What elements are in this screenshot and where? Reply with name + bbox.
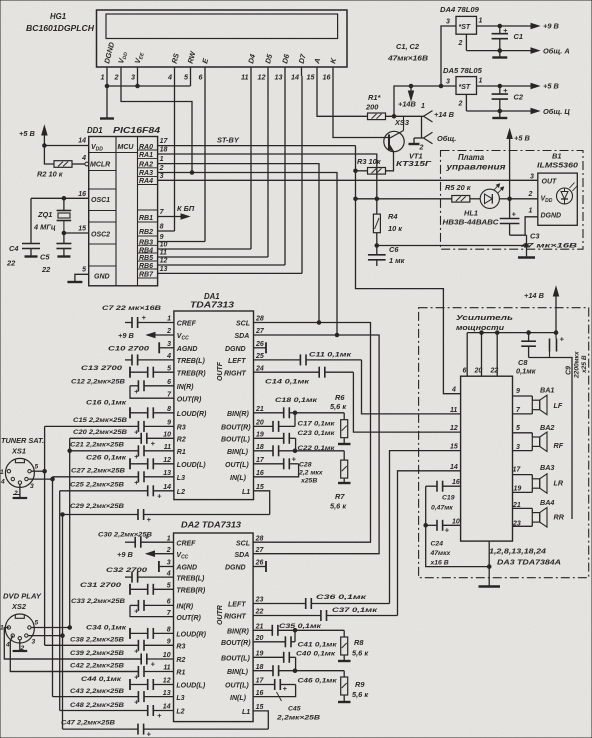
wire B1 DGND [510,217,538,235]
capacitor C16 [130,407,174,418]
pin number 4 [81,155,86,162]
capacitor C41 [253,636,295,647]
DA1 pin 17 name [225,462,249,469]
wire C23 to C22 row [295,438,297,451]
label 4MHz [33,223,56,232]
capacitor C17 [254,421,296,432]
wire XS2 pin3 [28,635,63,637]
ground XS2 [13,640,28,651]
capacitor C42 [10,666,173,682]
wire RA1 to R4 node [158,154,377,199]
wire AGND stub DA1 [159,347,174,349]
pin number DA4-2 [458,40,463,47]
wire C45 loop to IN(L) [253,685,296,697]
XS1 pin number 3 [30,483,34,490]
label C38 [70,636,124,643]
wire C40 to C46 row [295,657,297,670]
LCD pin 4 stub [174,67,176,76]
label RF [554,441,564,450]
wire RB7 row [158,272,302,274]
DA2 pin 17 number [256,678,265,685]
capacitor C19 [426,481,461,492]
label C35 [279,623,322,630]
DA2 pin 18 number [256,664,264,671]
label R9 [355,680,365,689]
junction XS2-5 harness [68,626,72,630]
capacitor C22 [254,445,345,456]
LCD pin 6 number [199,73,204,82]
digital ground tick DA2 [265,561,267,572]
MCU cell separators right [138,150,158,278]
label C19 value [431,505,453,512]
wire LCD DGND down [106,76,108,118]
DA2 pin 19 name [221,656,250,663]
label DA1 [204,292,220,301]
XS2 pin number 2 [20,645,25,652]
wire AGND stub DA2 [159,566,174,568]
pin name RB5 [139,255,153,262]
label R9 value [352,690,369,699]
wire LCD D6 to RB6 [284,76,286,265]
pin number DA3-6 [463,368,467,375]
capacitor C12 [130,380,174,396]
DA2 pin 6 number [167,599,171,606]
DA1 pin 17 number [256,457,265,464]
XS1 pin number 5 [35,464,39,471]
wire harness H5 [69,438,71,627]
DA1 pin 10 name [177,437,186,444]
DA2 pin 15 name [242,709,250,716]
wire LCD D5 to RB5 [267,76,269,257]
junction SDA [335,333,339,337]
junction gnd 245 [525,244,529,248]
label C44 [81,676,122,683]
junction C1 bottom [498,49,502,53]
junction rail C8 [527,331,531,335]
DA2 pin 4 number [166,570,171,577]
wire harness H4 [62,515,64,730]
wire LCD E to RB3 [204,76,206,242]
junction C18 R6 [293,411,297,415]
ground tick C34 [129,628,131,639]
DA1 pin 6 number [167,379,171,386]
pin number 10 [160,242,168,249]
DA1 pin 20 number [255,420,264,427]
capacitor C7 [125,313,174,328]
IR receiver photodiode symbol [557,183,578,205]
capacitor C30 [125,533,174,548]
digital ground tick DA1 [265,342,267,353]
wire R9 leads [343,671,345,702]
voltage regulator DA5 [456,77,477,95]
wire C3 to ground [510,234,527,236]
wire DA1 RIGHT to DA3-12 [353,372,460,432]
DA2 pin 26 number [255,560,264,567]
junction SCL [317,321,321,325]
label +14V [398,100,417,109]
DA2 pin 22 number [255,609,264,616]
supply arrow +14V amp [553,287,558,333]
label C13 [81,365,122,372]
XS2 pin number 3 [32,639,36,646]
wire +5V down to R2 [44,146,54,165]
LCD pin 12 stub [267,67,269,76]
LCD pin 11 stub [250,67,252,76]
DA2 pin 16 name [230,695,247,702]
pin name RA3 [139,170,153,177]
LCD pin 16 stub [332,67,334,76]
wire LCD VEE to rail [137,76,139,86]
wire crystal top [63,198,65,210]
DA2 pin 8 number [167,627,171,634]
DA2 pin 17 name [225,683,249,690]
DA2 pin 28 number [255,535,264,542]
wire HL1 to C3 node [499,198,509,200]
label C5 value [41,265,51,274]
LCD pin 14 number [291,73,299,82]
wire R3 left [356,170,368,172]
capacitor C6 [368,246,386,267]
XS1 pin number 4 [0,479,5,486]
resistor R4 [373,199,380,246]
label C21 [70,441,124,448]
junction R4 top [375,197,379,201]
wire XS1 pin5 [31,470,44,472]
wire DA1 SDA row and drop to DA2 [253,335,379,554]
DA2 pin 19 number [256,651,264,658]
supply arrow +9V DA1 [118,331,174,340]
wire DA1 SCL row and drop to DA2 [253,323,370,543]
DA1 pin 16 number [256,470,264,477]
transistor VT1 [384,116,404,152]
pin name RA4 [139,178,153,185]
pin name OSC1 [91,197,110,204]
label C43 [70,688,124,695]
connector XS1 [5,458,34,487]
DA2 pin 1 number [167,535,171,542]
wire R3 to VT1 emitter [386,152,394,171]
DA1 pin 2 name [177,333,189,342]
DA1 pin 5 name [177,370,206,377]
pin number 15 [78,225,86,232]
resistor R8 [341,637,348,655]
DA2 pin 23 number [255,597,264,604]
capacitor C29 [63,509,270,524]
label C12 [71,378,125,385]
wire RB6 row [158,264,285,266]
DA1 pin 18 number [256,444,264,451]
pin number B1-3 [530,174,534,181]
wire DA1 L1 loop [254,491,270,515]
speaker BA2 [513,432,548,451]
label +14V amp [524,291,545,300]
wire OUT(R) loop DA2 [130,605,174,616]
wire DA4 common [466,34,539,53]
label R8 value [352,648,369,657]
MCU cell separators left [89,153,116,267]
label C28 b [298,469,324,476]
pin name OUT [542,178,558,185]
DA1 pin 3 name [176,346,198,353]
wire harness H1 [44,426,46,645]
wire LCD VDD to RA3 [121,76,192,173]
capacitor C36 [253,598,389,609]
pin name DGND B1 [541,213,562,220]
label HG1 [50,12,66,21]
junction ST-BY R3 [354,169,358,173]
label C41 [298,641,338,648]
power amp rail [467,332,556,334]
capacitor C32 [125,572,174,583]
label C1 C2 values 2 [387,54,429,63]
ground tick C16 [129,407,131,418]
DA1 pin 28 name [236,321,250,328]
DA2 pin 23 name [228,602,246,609]
DA3 top pin 20 [481,333,483,377]
DA1 pin 5 number [167,365,171,372]
DA2 pin 10 name [176,657,185,664]
wire C19 C24 left rail [426,486,490,566]
DA2 pin 18 name [227,669,249,676]
pin name RA0 [139,144,153,151]
DA1 pin 4 name [177,358,206,365]
ground DA3 [479,585,501,588]
LCD pin 5 number [184,73,189,82]
capacitor C20 [70,433,174,448]
DA2 pin 12 number [163,678,171,685]
label C9 rotated [566,351,589,379]
pin number 8 [160,224,164,231]
wire RB5 row [158,256,268,258]
pin number DA3-3 [516,444,520,451]
DA2 pin 10 number [163,652,171,659]
junction XS2-3 harness [61,634,65,638]
label control board 2 [445,163,506,172]
ground C5 [57,256,70,257]
capacitor C9 [550,333,565,358]
DA1 pin 27 number [255,328,265,335]
ground tick C26 [129,458,131,469]
label C7 [102,305,161,312]
pin name RB1 [139,215,153,222]
wire LCD ground rail [107,85,191,87]
wire RB3 row [158,241,205,243]
label C19 [442,495,455,502]
label XS1 [11,447,26,456]
DA1 pin 18 name [227,449,249,456]
junction rail pin20 [480,331,484,335]
label B1 [552,152,561,161]
pin number DA3-11 [450,407,457,414]
ground R8 [338,660,351,662]
label VT1 [409,152,423,161]
pin number 18 [160,147,168,154]
ground control board [518,235,535,257]
signal arrow K BP [158,214,189,219]
LCD pin 13 number [275,73,283,82]
junction C46 R9 [293,669,297,673]
DA2 pin 11 name [176,670,185,677]
XS1 pin number 1 [0,469,4,476]
label RR [554,513,565,522]
DA1 pin 8 number [167,406,171,413]
label C46 [298,677,338,684]
label ILMS5360 [537,161,579,170]
resistor R5 [452,196,470,203]
label C45 a [288,706,301,713]
pin name GND [94,274,110,281]
capacitor C48 [60,705,174,720]
DA2 pin 1 name [176,540,196,547]
label TDA7313 [190,301,235,310]
pin number DA3-22 [490,368,499,375]
wire DA5 output [477,83,540,88]
capacitor C1 [492,26,508,51]
DA1 pin 4 number [166,353,171,360]
capacitor C13 [130,367,174,378]
LCD pin 15 number [307,73,316,82]
label C28 c [300,477,317,484]
amplifier DA3 box [461,376,513,541]
label C23 [298,430,336,437]
pin number 3 [160,173,164,180]
wire DGND stub DA2 [253,566,266,568]
label BA3 [540,463,554,472]
DA3 top pin 22 [496,333,498,377]
DA2 pin 13 number [163,690,171,697]
junction C21 harness [68,449,72,453]
ground tick C13 [129,367,131,378]
DA1 pin 7 number [167,391,172,398]
label C24 value a [430,550,452,557]
junction +14V arrow [409,84,413,88]
power amp border [419,308,589,578]
label XS3 common [437,134,456,143]
label +5V control [514,134,530,143]
DA2 pin 6 name [176,604,193,611]
pin number DA3-15 [450,444,458,451]
wire R8 leads [343,630,345,660]
LCD pin 6 name E [200,56,210,64]
DA2 pin 3 number [167,560,171,567]
junction DGND rail [105,84,109,88]
wire C28 loop to IN(L) [254,464,299,477]
wire RA0 ST-BY [158,145,356,147]
label XS3 [394,118,410,127]
pin number DA3-12 [450,425,458,432]
capacitor C26 [130,458,174,469]
label XS2 [11,602,27,611]
wire XS1 pin3 [28,478,52,480]
pin number 7 [160,209,165,216]
LCD pin 13 name D6 [280,52,291,64]
wire B1 VDD row [510,198,538,200]
label DVD PLAY [3,592,42,601]
resistor R3 [368,168,386,175]
wire RA2 SCL column [158,164,319,323]
pin name OSC2 [91,232,110,239]
wire LCD D7 to RB7 [301,76,303,273]
pin number 13 [160,266,168,273]
pin number DA3-19 [514,486,522,493]
MCLR inversion bubble [85,162,89,166]
label MCU [118,144,135,151]
LCD pin 2 name V<tspan font-size="5" dy="1.5">DD</tspan> [116,50,129,65]
DA1 pin 9 name [177,425,186,432]
LCD pin 14 name D7 [297,52,308,64]
label C48 [70,702,124,709]
pin number DA3-14 [450,464,458,471]
pin name RB2 [139,229,153,236]
label C27 [71,467,125,474]
wire RB4 row [158,248,251,250]
DA2 pin 28 name [236,540,250,547]
pin number DA4-1 [479,18,483,25]
label TUNER SAT [1,436,44,445]
MCU cell separator mcu [116,152,138,154]
DA1 pin 19 number [256,432,264,439]
pin name MCLR [90,162,110,169]
resistor R6 [341,420,348,438]
control board border [441,151,584,250]
wire R2 to MCLR [72,163,85,165]
wire RB2 row [158,230,175,232]
label C14 [265,379,310,386]
label C31 [80,582,121,589]
wire C5 drop [63,233,65,243]
DA1 pin 14 number [163,484,171,491]
pin number 9 [160,234,164,241]
wire harness H2 [52,477,54,697]
LED HL1 [480,184,503,208]
DA2 pin 3 name [175,565,197,572]
DA1 pin 19 name [221,437,250,444]
LCD pin 1 stub [106,67,108,76]
junction C22 R7 [293,449,297,453]
connector XS2 [5,614,34,643]
DA1 pin 11 number [164,444,171,451]
DA1 pin 14 name [177,489,185,496]
wire LCD RW to ground rail [190,76,192,86]
junction C35 R8 [293,629,297,633]
DA1 pin 13 number [163,470,171,477]
label C45 b [276,715,320,722]
capacitor C21 [70,445,174,461]
pin number DA3-7 [516,407,521,414]
analog ground tick DA1 [158,342,160,353]
capacitor C44 [130,679,174,690]
audio processor DA1 box [174,311,254,500]
wire +5V to VDD [44,145,88,147]
label R4 value [388,224,403,233]
ground tick C44 [129,679,131,690]
wire R1 to XS3 [386,115,424,117]
speaker BA1 [513,395,548,415]
pin name RA1 [139,152,153,159]
label common C [543,107,570,116]
XS1 pin number 2 [13,490,18,497]
LCD pin 13 stub [284,67,286,76]
wire ST-BY vertical [356,146,461,394]
label DA5 78L05 [443,66,483,75]
DA1 pin 28 number [255,316,264,323]
audio processor DA2 box [174,533,254,722]
LCD pin 5 stub [190,67,192,76]
LCD pin 12 number [258,73,266,82]
DA2 pin 9 number [167,639,171,646]
junction R1 +14V [392,115,396,119]
LCD pin 2 number [114,73,119,82]
